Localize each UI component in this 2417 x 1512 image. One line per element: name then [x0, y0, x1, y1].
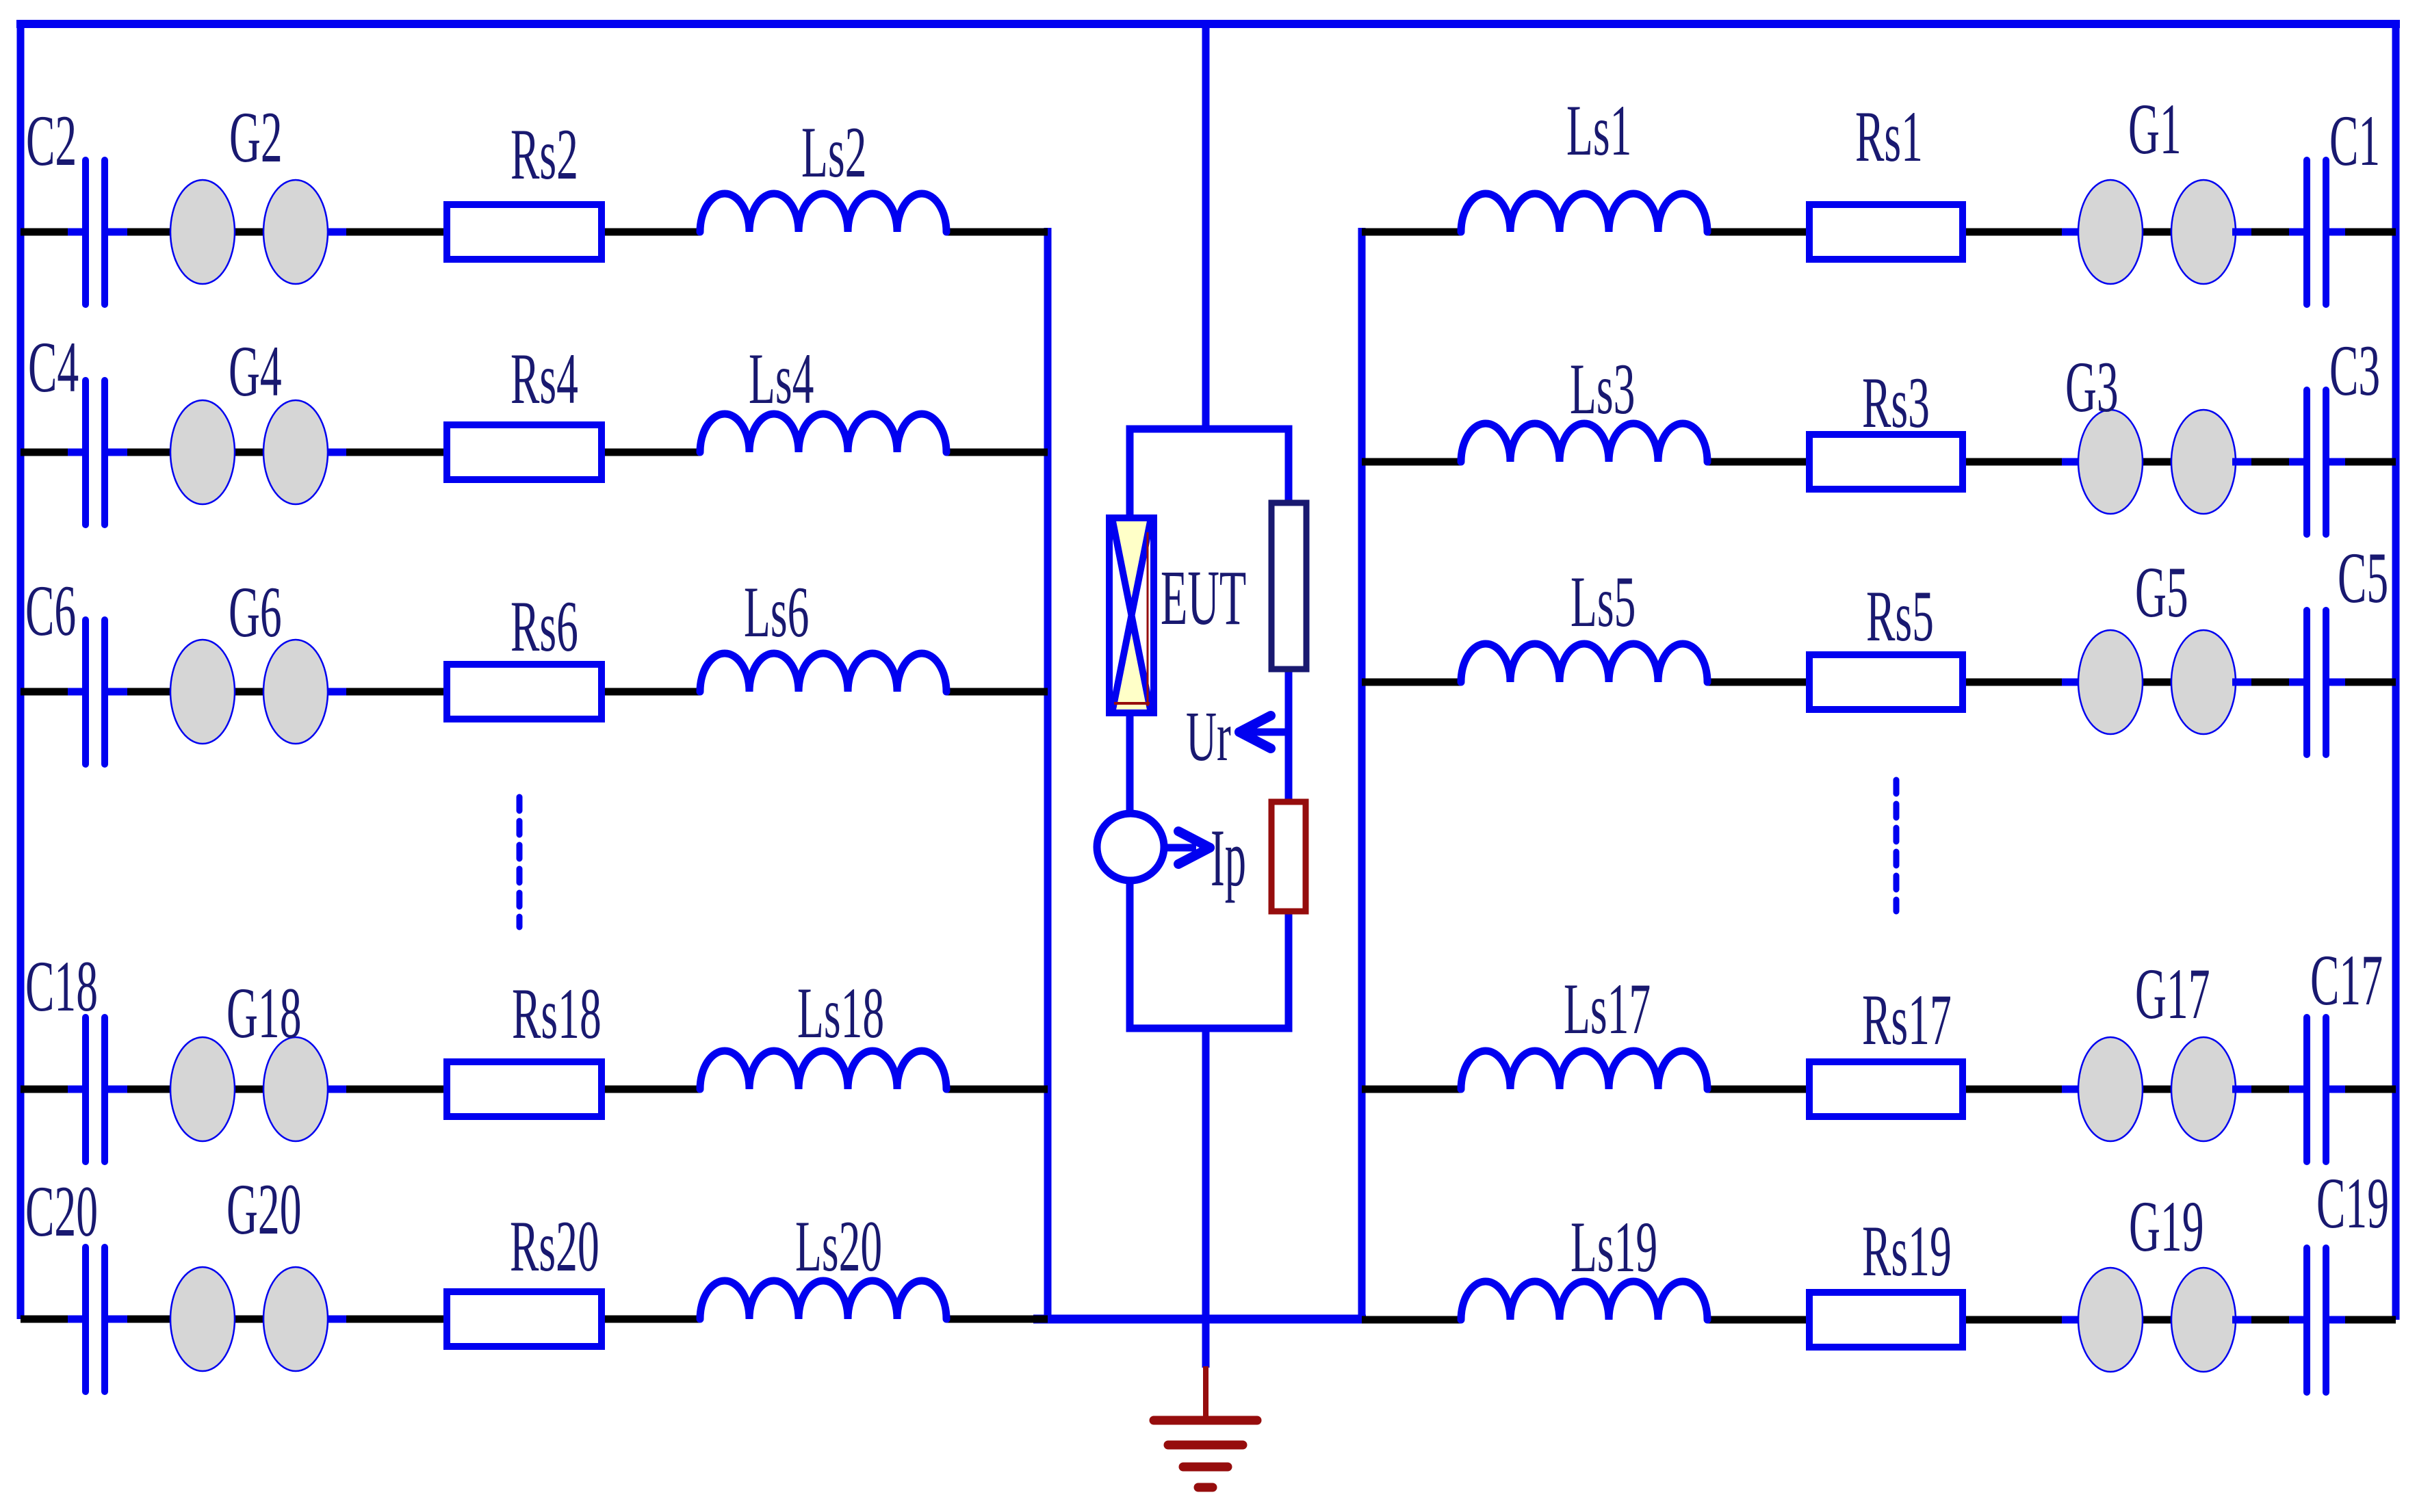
- svg-text:G4: G4: [229, 330, 282, 411]
- capacitor C20: [82, 1247, 89, 1392]
- spark gap G18 electrode 1: [170, 1037, 235, 1141]
- inductor Ls20: [700, 1281, 946, 1319]
- node: left row 4 wire (border to capacitor): [21, 1086, 86, 1093]
- capacitor C18: [82, 1017, 89, 1162]
- spark gap G3 electrode 2: [2171, 410, 2236, 514]
- resistor Rs2: [447, 205, 602, 259]
- svg-text:C17: C17: [2310, 939, 2383, 1020]
- node: left row 1 wire (border to capacitor): [21, 229, 86, 236]
- svg-text:C1: C1: [2329, 100, 2380, 181]
- wire: left row 4 capacitor right-plate to resistor: [105, 1086, 700, 1093]
- node: left row 3 wire (border to capacitor): [21, 688, 86, 696]
- spark gap G18 electrode 2: [263, 1037, 328, 1141]
- wire: blue stub right of capacitor C3: [2329, 458, 2345, 466]
- wire: right collector bus: [1358, 228, 1366, 1320]
- resistor Rs20: [447, 1292, 602, 1346]
- svg-text:C3: C3: [2329, 330, 2380, 410]
- wire: left row 2 inductor to left bus: [946, 449, 1048, 456]
- wire: blue stub right of capacitor C1: [2329, 229, 2345, 236]
- svg-text:C6: C6: [25, 570, 76, 651]
- wire: right row 3 inductor to capacitor: [1707, 679, 2307, 686]
- wire: right row 2 inductor to capacitor: [1707, 458, 2307, 466]
- wire: right row 1 inductor to capacitor: [1707, 229, 2307, 236]
- wire: blue stub left of capacitor C2: [68, 229, 83, 236]
- spark gap G2 electrode 1: [170, 180, 235, 284]
- resistor (reference divider, navy): [1271, 503, 1306, 669]
- svg-text:G3: G3: [2065, 346, 2119, 427]
- spark gap G1 electrode 1: [2078, 180, 2143, 284]
- capacitor C4: [82, 380, 89, 525]
- wire: right row 3 bus to inductor: [1362, 679, 1461, 686]
- spark gap G19 electrode 2: [2171, 1268, 2236, 1372]
- wire: right row 5 bus to inductor: [1362, 1316, 1461, 1324]
- spark gap G3 electrode 1: [2078, 410, 2143, 514]
- wire: blue stub left of capacitor C19: [2289, 1316, 2305, 1324]
- wire: blue stub right of capacitor C18: [107, 1086, 127, 1093]
- wire: blue stub right of capacitor C19: [2329, 1316, 2345, 1324]
- svg-text:Ls19: Ls19: [1571, 1206, 1657, 1287]
- svg-text:G5: G5: [2135, 551, 2188, 632]
- svg-text:Rs6: Rs6: [510, 586, 578, 666]
- wire: blue stub right of spark gap G3: [2232, 458, 2251, 466]
- wire: top bus rail: [16, 20, 2400, 28]
- wire: left row 5 capacitor right-plate to resistor: [105, 1316, 700, 1323]
- spark gap G20 electrode 1: [170, 1267, 235, 1371]
- wire: blue stub right of spark gap G18: [328, 1086, 346, 1093]
- wire: left row 1 capacitor right-plate to resistor: [105, 229, 700, 236]
- node: right rows ellipsis (dashed): [1893, 780, 1900, 911]
- svg-text:Ls5: Ls5: [1571, 561, 1636, 642]
- wire: blue stub left of capacitor C1: [2289, 229, 2305, 236]
- spark gap G17 electrode 2: [2171, 1037, 2236, 1141]
- svg-text:Rs4: Rs4: [510, 338, 578, 419]
- svg-text:Ls18: Ls18: [797, 972, 884, 1053]
- spark gap G6 electrode 1: [170, 640, 235, 744]
- wire: blue stub right of spark gap G20: [328, 1316, 346, 1323]
- ground: [1154, 1420, 1257, 1487]
- wire: blue stub left of spark gap G1: [2062, 229, 2080, 236]
- wire: blue stub right of spark gap G17: [2232, 1086, 2251, 1093]
- svg-text:Rs5: Rs5: [1866, 575, 1934, 656]
- spark gap G5 electrode 1: [2078, 630, 2143, 734]
- wire: blue stub right of spark gap G1: [2232, 229, 2251, 236]
- spark gap G1 electrode 2: [2171, 180, 2236, 284]
- resistor Rs19: [1809, 1292, 1963, 1347]
- wire: centre feed from top bus to EUT box: [1202, 24, 1210, 432]
- svg-text:Ur: Ur: [1186, 697, 1231, 776]
- wire: centre line EUT box bottom to ground: [1202, 1028, 1210, 1368]
- svg-text:Rs20: Rs20: [510, 1205, 599, 1286]
- spark gap G19 electrode 1: [2078, 1268, 2143, 1372]
- svg-text:Rs3: Rs3: [1862, 362, 1930, 443]
- resistor Rs17: [1809, 1062, 1963, 1117]
- svg-text:EUT: EUT: [1161, 555, 1246, 642]
- wire: blue stub right of capacitor C17: [2329, 1086, 2345, 1093]
- inductor Ls19: [1461, 1281, 1707, 1320]
- spark gap G2 electrode 2: [263, 180, 328, 284]
- svg-text:C19: C19: [2316, 1162, 2389, 1243]
- wire: blue stub right of spark gap G19: [2232, 1316, 2251, 1324]
- svg-text:G1: G1: [2128, 88, 2182, 169]
- wire: blue stub right of capacitor C20: [107, 1316, 127, 1323]
- wire: blue stub left of capacitor C17: [2289, 1086, 2305, 1093]
- svg-text:Rs19: Rs19: [1862, 1210, 1952, 1291]
- svg-text:Ls1: Ls1: [1566, 90, 1631, 170]
- wire: blue stub left of capacitor C3: [2289, 458, 2305, 466]
- resistor Rs6: [447, 664, 602, 719]
- svg-text:G20: G20: [227, 1169, 302, 1249]
- inductor Ls5: [1461, 644, 1707, 682]
- node: left row 5 wire (border to capacitor): [21, 1316, 86, 1323]
- wire: blue stub left of capacitor C4: [68, 449, 83, 456]
- wire: left row 3 capacitor right-plate to resistor: [105, 688, 700, 696]
- capacitor C6: [82, 620, 89, 764]
- wire: left row 1 inductor to left bus: [946, 229, 1048, 236]
- wire: blue stub left of capacitor C18: [68, 1086, 83, 1093]
- svg-text:Rs17: Rs17: [1862, 979, 1952, 1060]
- capacitor C5: [2303, 610, 2310, 755]
- resistor Rs4: [447, 425, 602, 480]
- wire: right row 4 bus to inductor: [1362, 1086, 1461, 1093]
- wire: blue stub left of capacitor C6: [68, 688, 83, 696]
- svg-text:G19: G19: [2129, 1186, 2204, 1266]
- wire: right row 1 bus to inductor: [1362, 229, 1461, 236]
- svg-text:C2: C2: [26, 100, 77, 181]
- resistor Rs5: [1809, 655, 1963, 709]
- wire: blue stub right of capacitor C2: [107, 229, 127, 236]
- svg-text:C5: C5: [2338, 537, 2388, 618]
- wire: blue stub left of spark gap G19: [2062, 1316, 2080, 1324]
- wire: blue stub right of capacitor C5: [2329, 679, 2345, 686]
- inductor Ls3: [1461, 423, 1707, 462]
- capacitor C2: [82, 160, 89, 304]
- svg-text:Ls6: Ls6: [744, 571, 809, 652]
- node Ur arrow: [1239, 716, 1292, 748]
- wire: blue stub left of spark gap G3: [2062, 458, 2080, 466]
- svg-text:C20: C20: [25, 1171, 98, 1251]
- svg-text:C4: C4: [28, 326, 79, 407]
- resistor Rs3: [1809, 434, 1963, 489]
- wire: blue stub left of capacitor C5: [2289, 679, 2305, 686]
- wire: blue stub right of capacitor C4: [107, 449, 127, 456]
- inductor Ls2: [700, 194, 946, 232]
- svg-text:G6: G6: [229, 571, 282, 652]
- inductor Ls4: [700, 414, 946, 452]
- capacitor C19: [2303, 1248, 2310, 1392]
- spark gap G4 electrode 1: [170, 400, 235, 504]
- wire: blue stub right of capacitor C6: [107, 688, 127, 696]
- svg-text:Rs18: Rs18: [512, 973, 602, 1054]
- svg-text:Rs1: Rs1: [1855, 96, 1923, 177]
- wire: dark red ground lead: [1203, 1366, 1208, 1416]
- inductor Ls6: [700, 653, 946, 692]
- svg-text:Ls3: Ls3: [1570, 348, 1635, 429]
- wire: right row 5 inductor to capacitor: [1707, 1316, 2307, 1324]
- wire: left row 2 capacitor right-plate to resistor: [105, 449, 700, 456]
- wire: left row 3 inductor to left bus: [946, 688, 1048, 696]
- current source Ip: [1097, 813, 1164, 881]
- svg-text:Ls2: Ls2: [801, 112, 866, 192]
- wire: right row 4 inductor to capacitor: [1707, 1086, 2307, 1093]
- wire: right row 5 capacitor to border: [2327, 1316, 2396, 1324]
- svg-text:Ls4: Ls4: [749, 338, 814, 419]
- svg-text:C18: C18: [25, 946, 98, 1026]
- wire: right row 4 capacitor to border: [2327, 1086, 2396, 1093]
- wire: blue stub left of spark gap G17: [2062, 1086, 2080, 1093]
- node: left row 2 wire (border to capacitor): [21, 449, 86, 456]
- wire: right row 2 capacitor to border: [2327, 458, 2396, 466]
- spark gap G5 electrode 2: [2171, 630, 2236, 734]
- svg-text:Ip: Ip: [1211, 812, 1246, 903]
- wire: bottom blue node between buses: [1033, 1315, 1366, 1324]
- resistor Rs1: [1809, 205, 1963, 259]
- wire: left row 4 inductor to left bus: [946, 1086, 1048, 1093]
- wire: right row 1 capacitor to border: [2327, 229, 2396, 236]
- capacitor C17: [2303, 1017, 2310, 1162]
- wire: left row 5 inductor to left bus: [946, 1316, 1048, 1323]
- wire: right row 3 capacitor to border: [2327, 679, 2396, 686]
- inductor Ls18: [700, 1051, 946, 1089]
- spark gap G17 electrode 1: [2078, 1037, 2143, 1141]
- svg-text:G2: G2: [229, 96, 283, 177]
- spark gap G4 electrode 2: [263, 400, 328, 504]
- wire: blue stub right of spark gap G2: [328, 229, 346, 236]
- resistor (shunt, dark red): [1271, 802, 1306, 911]
- capacitor C1: [2303, 160, 2310, 304]
- spark gap G20 electrode 2: [263, 1267, 328, 1371]
- svg-text:Rs2: Rs2: [510, 114, 578, 194]
- svg-text:G17: G17: [2135, 953, 2210, 1034]
- wire: left collector bus: [1044, 228, 1052, 1319]
- wire: blue stub right of spark gap G5: [2232, 679, 2251, 686]
- resistor Rs18: [447, 1062, 602, 1117]
- capacitor C3: [2303, 390, 2310, 534]
- wire: blue stub left of capacitor C20: [68, 1316, 83, 1323]
- inductor Ls1: [1461, 194, 1707, 232]
- inductor Ls17: [1461, 1051, 1707, 1089]
- svg-text:G18: G18: [227, 972, 302, 1053]
- spark gap G6 electrode 2: [263, 640, 328, 744]
- wire: blue stub right of spark gap G4: [328, 449, 346, 456]
- node: left rows ellipsis (dashed): [517, 797, 523, 927]
- wire: right border rail: [2392, 20, 2400, 1320]
- wire: right row 2 bus to inductor: [1362, 458, 1461, 466]
- wire: blue stub right of spark gap G6: [328, 688, 346, 696]
- svg-text:Ls17: Ls17: [1564, 968, 1651, 1049]
- EUT device (crossed box): [1109, 518, 1154, 713]
- wire: left border rail: [17, 20, 25, 1319]
- wire: blue stub left of spark gap G5: [2062, 679, 2080, 686]
- wire: measurement loop box: [1130, 429, 1289, 1028]
- node Ip arrow: [1164, 831, 1210, 864]
- svg-text:Ls20: Ls20: [795, 1205, 882, 1286]
